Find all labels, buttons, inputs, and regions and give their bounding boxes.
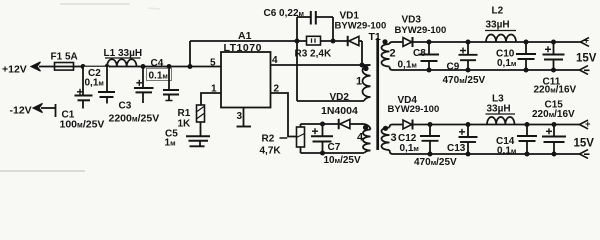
svg-text:L2: L2 [492, 6, 504, 17]
svg-text:220м/16V: 220м/16V [532, 109, 575, 120]
svg-text:33µH: 33µH [486, 20, 510, 31]
svg-text:+12V: +12V [2, 64, 27, 76]
svg-text:BYW29-100: BYW29-100 [335, 21, 387, 32]
svg-text:470м/25V: 470м/25V [414, 157, 457, 168]
svg-text:R3 2,4K: R3 2,4K [295, 49, 332, 60]
svg-text:C4: C4 [151, 58, 164, 69]
svg-text:3: 3 [237, 111, 243, 122]
svg-text:15V: 15V [574, 138, 595, 150]
svg-text:0,1м: 0,1м [398, 60, 417, 71]
svg-text:C8: C8 [413, 48, 426, 59]
svg-text:R1: R1 [178, 108, 191, 119]
svg-text:LT1070: LT1070 [224, 42, 262, 54]
svg-text:1K: 1K [178, 119, 192, 130]
svg-text:3: 3 [391, 132, 397, 144]
svg-text:470м/25V: 470м/25V [443, 75, 486, 86]
svg-text:100м/25V: 100м/25V [60, 119, 105, 131]
svg-text:C13: C13 [447, 143, 466, 154]
svg-text:C9: C9 [447, 62, 460, 73]
svg-text:10м/25V: 10м/25V [324, 155, 361, 166]
svg-text:2: 2 [390, 48, 396, 60]
svg-text:2200м/25V: 2200м/25V [109, 113, 160, 125]
svg-text:BYW29-100: BYW29-100 [388, 104, 440, 115]
svg-text:220м/16V: 220м/16V [534, 85, 577, 96]
svg-text:F1 5A: F1 5A [51, 52, 78, 63]
svg-text:R2: R2 [262, 134, 275, 145]
svg-text:0,1м: 0,1м [85, 78, 104, 89]
svg-text:+: + [585, 119, 591, 130]
svg-text:T1: T1 [369, 31, 381, 43]
svg-text:1м: 1м [165, 138, 176, 149]
svg-text:L1 33µH: L1 33µH [104, 48, 143, 59]
svg-text:33µH: 33µH [487, 104, 511, 115]
svg-text:0,1м: 0,1м [497, 146, 516, 157]
svg-text:0.1м: 0.1м [149, 71, 168, 82]
svg-text:BYW29-100: BYW29-100 [395, 25, 447, 36]
svg-text:4: 4 [357, 132, 364, 144]
svg-text:5: 5 [210, 58, 216, 69]
svg-text:C3: C3 [119, 101, 132, 112]
svg-text:0,1м: 0,1м [400, 143, 419, 154]
svg-text:0,1м: 0,1м [497, 58, 516, 69]
svg-text:15V: 15V [576, 53, 597, 65]
svg-text:-12V: -12V [10, 105, 32, 117]
svg-text:4,7K: 4,7K [260, 146, 282, 157]
svg-text:1: 1 [356, 76, 362, 88]
svg-text:C7: C7 [328, 142, 341, 153]
svg-text:+: + [584, 36, 590, 47]
svg-text:C6 0,22м: C6 0,22м [264, 8, 305, 19]
svg-text:A1: A1 [238, 30, 252, 42]
svg-text:VD3: VD3 [402, 15, 422, 26]
svg-text:1N4004: 1N4004 [321, 105, 358, 117]
